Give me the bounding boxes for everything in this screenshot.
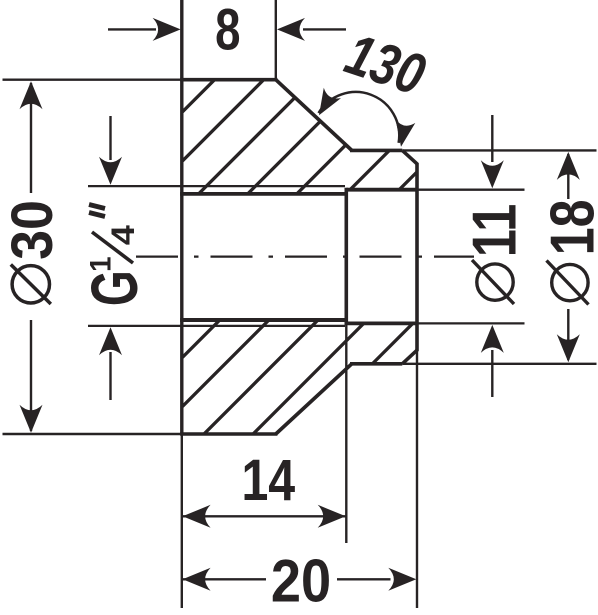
cone slope top [276, 80, 352, 151]
center line (dash-dot) [136, 255, 474, 257]
chamfer bottom right [402, 350, 417, 364]
angle dim 130: arc [319, 92, 400, 143]
part bottom edge [180, 432, 277, 436]
thread major dia thin line top [88, 185, 345, 187]
dim O30: vertical dim line with outward arrows [20, 81, 43, 109]
chamfer top right [402, 150, 417, 163]
dim G1/4: lower arrow (pointing up) [99, 327, 122, 355]
extension line top right of flange [275, 0, 277, 80]
left bore bottom thick line [180, 318, 346, 322]
bore step extension line down (14 dim) [345, 323, 347, 543]
part right edge [415, 163, 419, 351]
svg-text:14: 14 [241, 449, 295, 513]
right bore bottom thick line [346, 321, 417, 325]
dim O18: upper arrow (pointing up, inside) [557, 152, 580, 180]
dim G1/4: upper arrow (pointing down) [109, 116, 111, 160]
right edge extension down to 20-dim [416, 350, 418, 608]
O30 bottom extension line [3, 433, 182, 435]
dim O11: lower arrow (pointing up) [481, 325, 504, 353]
shelf bottom edge (O18 bottom) [350, 362, 402, 366]
130 arc arrowhead on shelf [396, 120, 416, 147]
svg-text:18: 18 [537, 199, 598, 255]
O11 label group (rotated) [460, 204, 529, 304]
bore step vertical [344, 188, 348, 325]
dim O18: lower arrow (pointing down, inside) [567, 309, 569, 360]
svg-text:20: 20 [271, 548, 331, 610]
svg-text:1: 1 [85, 256, 118, 271]
thread major dia thin line bottom [88, 325, 345, 327]
svg-text:G: G [79, 270, 152, 306]
O30 top extension line [3, 78, 182, 80]
shelf top edge (O18 top) [350, 149, 402, 153]
right bore top thick line [346, 188, 417, 192]
left bore top thick line [180, 192, 346, 196]
G1/4" label group (rotated) [79, 205, 152, 307]
O11 top extension line [417, 189, 525, 191]
svg-text:4: 4 [106, 225, 142, 245]
dim 14: line with outward arrows [183, 515, 346, 517]
dim 8: left shaft and arrow [108, 28, 156, 30]
svg-text:8: 8 [215, 0, 240, 63]
bottom flange hatch region [100, 0, 480, 615]
O11 bottom extension line [417, 322, 525, 324]
O18 label group (rotated) [537, 199, 598, 304]
dim 20: right shaft/arrow [337, 578, 391, 580]
cone slope bottom [276, 364, 352, 434]
shelf top extension line to right [402, 149, 596, 151]
O30 label group (rotated) [0, 200, 64, 304]
part top edge [180, 78, 277, 82]
dim 20: left shaft/arrow [183, 568, 211, 591]
130 arc arrowhead on slope [319, 88, 341, 115]
dim O11: upper arrow (pointing down) [491, 115, 493, 162]
left extension/edge vertical line [180, 0, 183, 434]
svg-text:30: 30 [0, 200, 64, 260]
dim 8: right arrow and shaft [277, 18, 305, 41]
shelf bottom extension line to right [402, 363, 596, 365]
svg-text:11: 11 [460, 204, 529, 258]
